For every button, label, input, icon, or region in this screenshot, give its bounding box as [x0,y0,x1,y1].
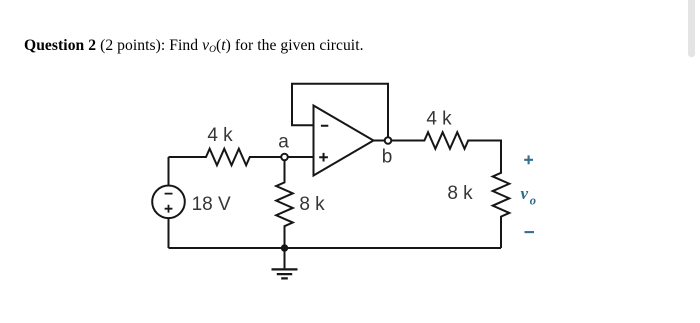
svg-text:o: o [530,194,536,208]
svg-text:8 k: 8 k [299,194,325,215]
svg-text:a: a [278,132,289,153]
svg-text:v: v [521,184,529,203]
svg-text:18 V: 18 V [192,194,231,215]
svg-text:b: b [382,147,393,168]
svg-text:4 k: 4 k [426,109,452,130]
svg-text:4 k: 4 k [207,125,233,146]
svg-text:8 k: 8 k [447,183,473,204]
